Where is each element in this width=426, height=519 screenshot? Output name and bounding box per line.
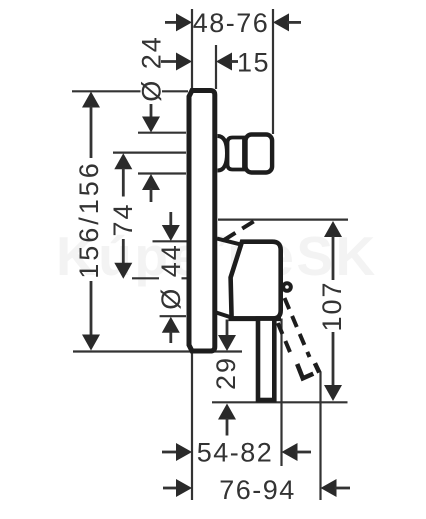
svg-text:15: 15 <box>237 48 270 78</box>
extension line handle bottom (y=316.2) <box>160 315 186 317</box>
svg-text:Ø 24: Ø 24 <box>137 35 167 102</box>
extension line lever bottom (y=402.3) <box>212 401 348 403</box>
dimension 54-82 <box>162 438 311 468</box>
extension line plate top (y=91.3) <box>72 90 141 92</box>
extension line plate bottom (y=352.2) <box>73 350 242 352</box>
handle upper connector <box>217 239 241 245</box>
extension line left of 48-76 (x=192) <box>191 9 193 88</box>
plate outline (side view) <box>189 91 215 352</box>
lever bar down position <box>258 319 274 400</box>
dimension 156/156 <box>74 92 104 351</box>
extension line lever tip (x=320.5) <box>319 372 321 501</box>
dimension 74 <box>108 153 138 278</box>
dimension 107 <box>317 221 347 401</box>
extension line knob bottom (y=173.5) <box>138 172 186 174</box>
extension line knob face (x=273) <box>272 9 274 134</box>
svg-text:76-94: 76-94 <box>219 475 296 505</box>
svg-text:156/156: 156/156 <box>74 160 104 279</box>
dashed lever rotated left edge <box>278 323 293 358</box>
extension line wall below plate (x=192) <box>191 354 193 501</box>
extension line sleeve face (x=215.5) <box>215 45 217 89</box>
svg-text:107: 107 <box>317 280 347 331</box>
dashed lever rotated right edge <box>285 298 310 357</box>
extension line handle edge (x=281.5) <box>280 319 282 467</box>
dimension 48-76 <box>165 8 301 38</box>
svg-text:29: 29 <box>211 356 241 390</box>
dimension diameter 24 <box>137 35 167 202</box>
dashed lever upper position <box>224 218 260 241</box>
dimension 29 <box>211 320 241 436</box>
dimension 76-94 <box>163 475 350 505</box>
extension line lever up position (y=219.6) <box>218 219 348 221</box>
handle bottom edge to plate <box>229 316 282 321</box>
extension line knob axis (y=152.6) <box>113 152 186 154</box>
svg-text:Ø 44: Ø 44 <box>156 243 186 310</box>
svg-text:54-82: 54-82 <box>197 438 274 468</box>
handle lower connector <box>217 313 231 317</box>
knob bulge at sleeve face <box>218 136 228 171</box>
lever rotated end cap <box>297 364 313 378</box>
svg-text:74: 74 <box>108 202 138 236</box>
extension line handle axis (y=278.3) <box>132 277 159 279</box>
pivot bump on handle edge <box>283 283 291 291</box>
dimension diameter 44 <box>156 212 186 343</box>
dimension 15 <box>161 48 270 78</box>
knob mid ring <box>228 138 245 170</box>
extension line knob top (y=132.7) <box>138 132 186 134</box>
handle body <box>231 242 281 319</box>
svg-text:48-76: 48-76 <box>193 8 270 38</box>
extension line handle top (y=241.3) <box>153 240 188 242</box>
knob outer cap <box>246 135 273 173</box>
